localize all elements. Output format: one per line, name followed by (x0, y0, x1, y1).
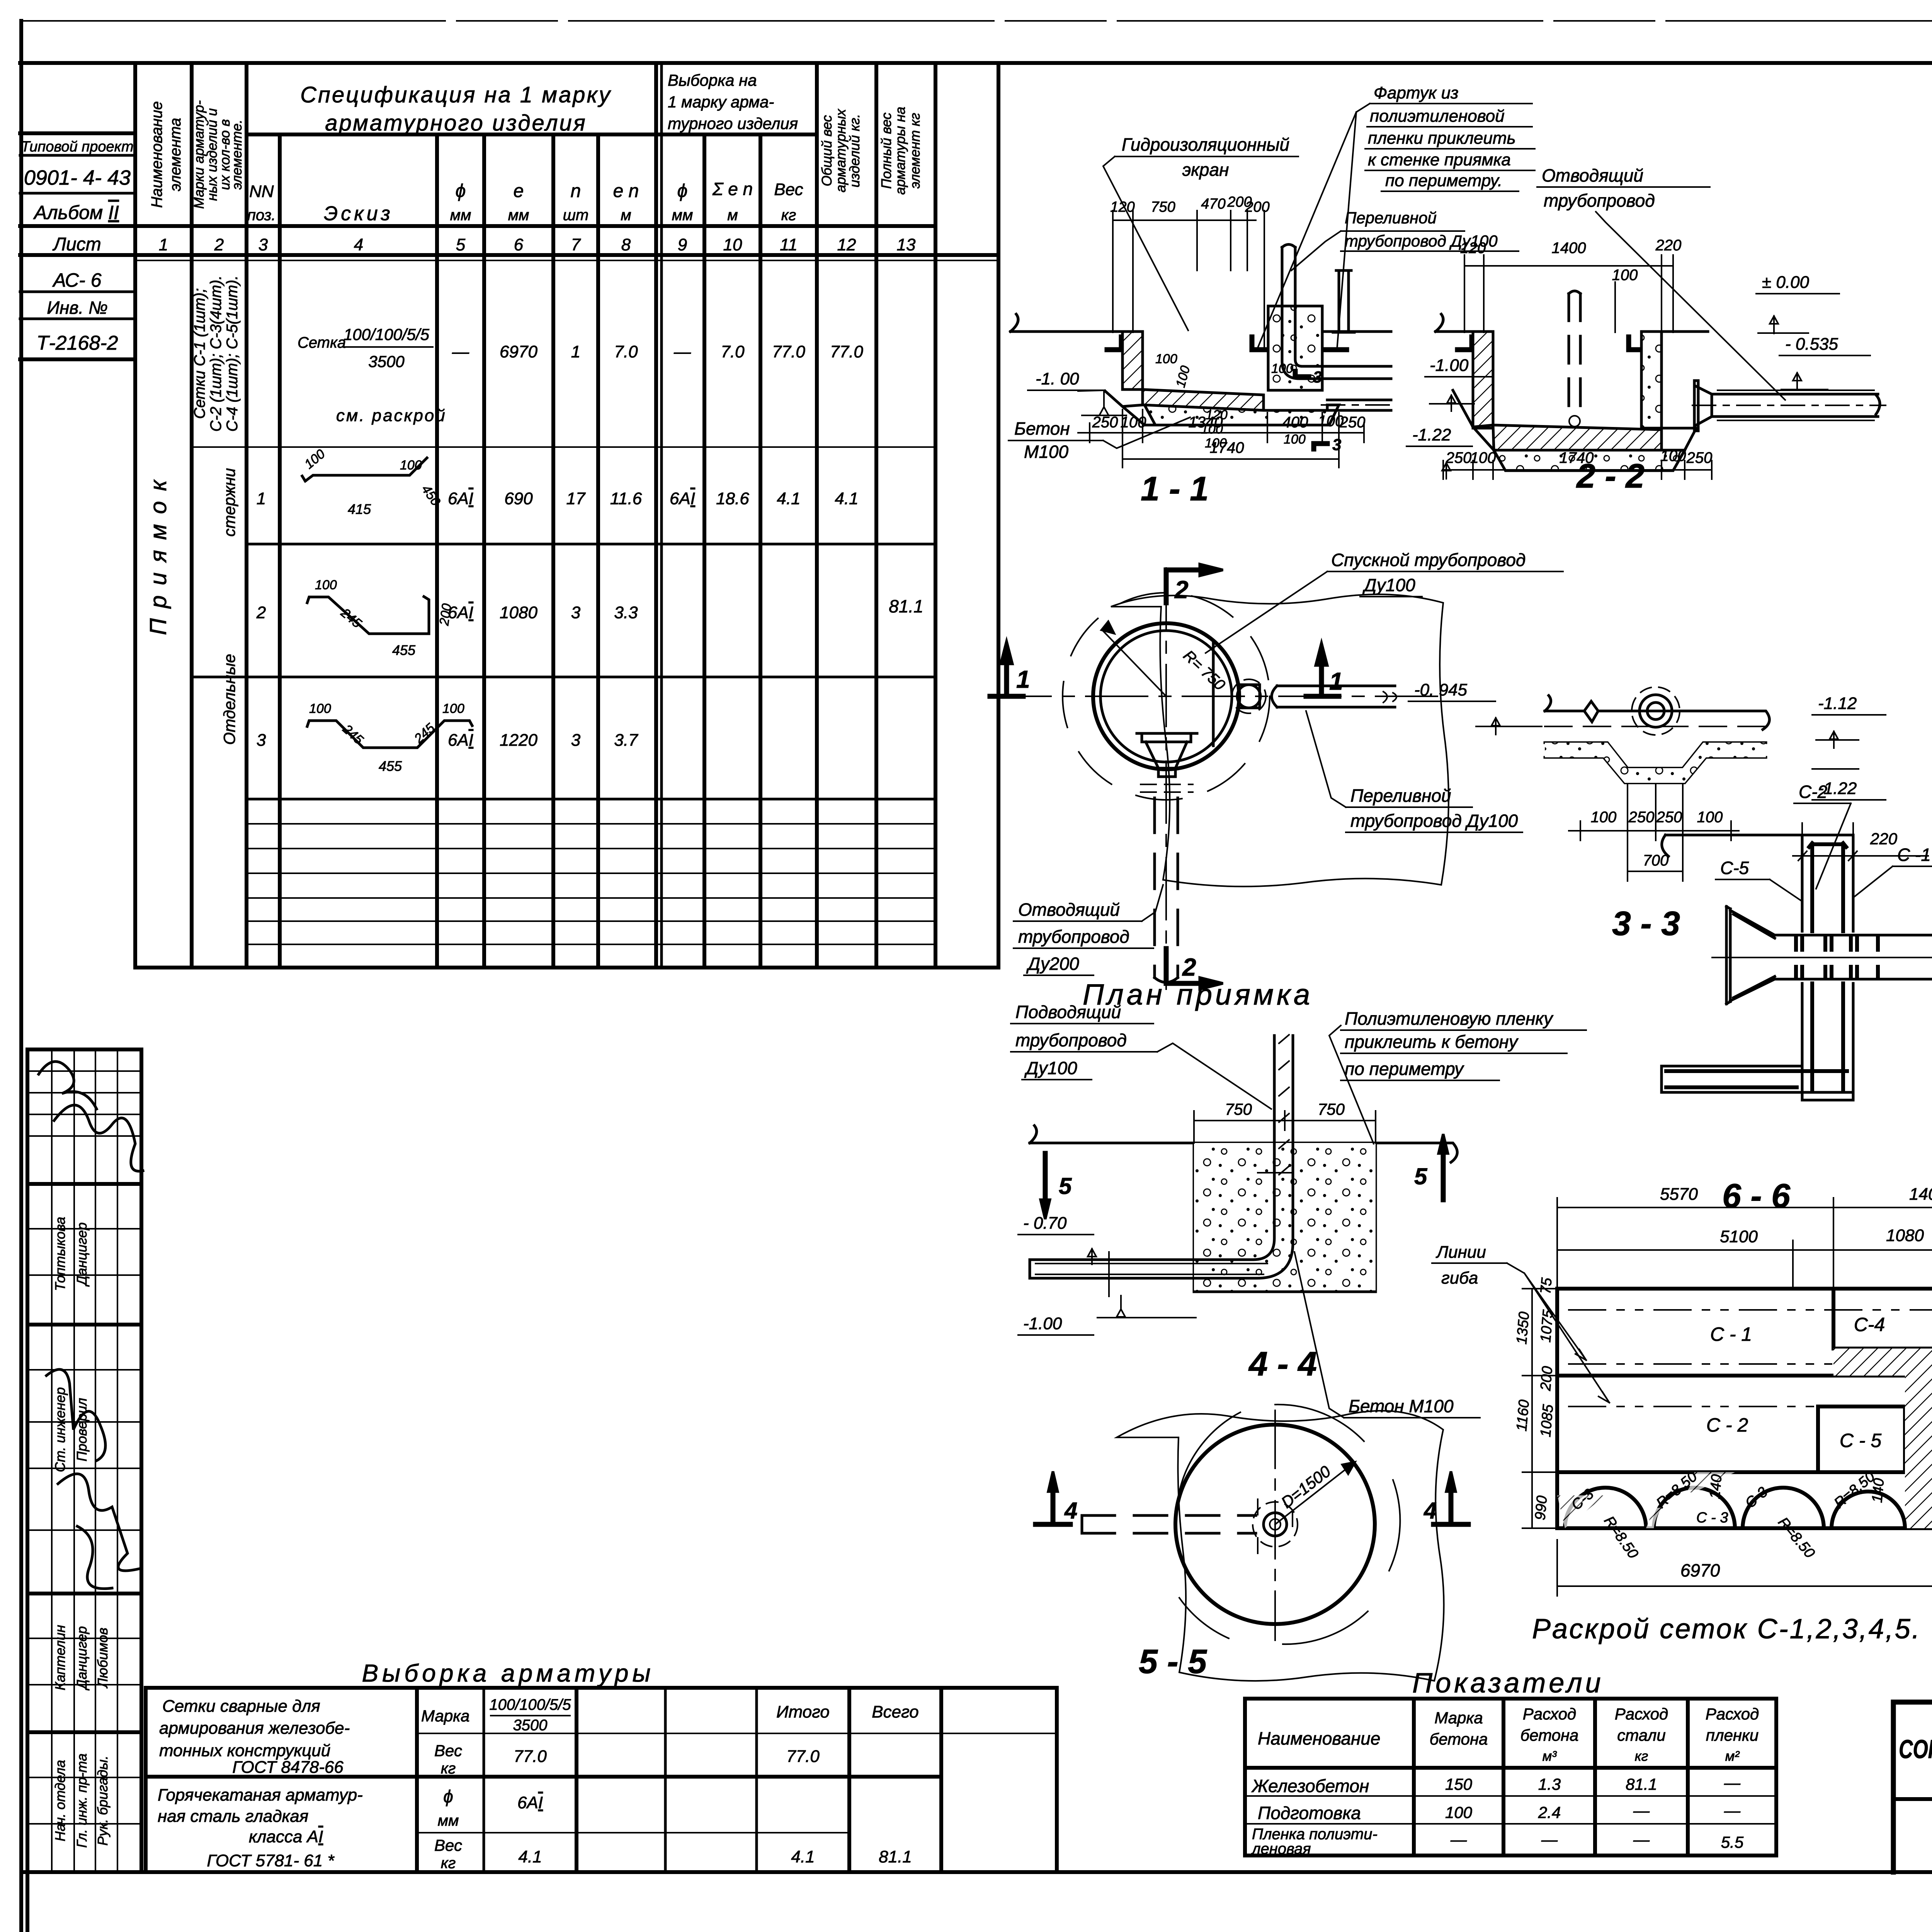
svg-text:трубопровод: трубопровод (1018, 927, 1129, 947)
svg-text:—: — (1724, 1801, 1741, 1820)
section 1-1 U-pipe in wall (1282, 245, 1391, 411)
svg-text:100: 100 (442, 701, 464, 716)
svg-text:11.6: 11.6 (610, 489, 642, 508)
frame bottom thick line (21, 1870, 1932, 1874)
svg-text:Переливной: Переливной (1345, 209, 1437, 227)
raskroy main rect (1557, 1289, 1932, 1528)
svg-text:Проверил: Проверил (74, 1398, 90, 1462)
svg-text:турного изделия: турного изделия (668, 114, 798, 133)
svg-text:арматурного изделия: арматурного изделия (325, 111, 587, 136)
svg-text:стержни: стержни (220, 468, 238, 537)
svg-text:АС- 6: АС- 6 (52, 269, 102, 291)
label polyethylene film (4-4) (1329, 1009, 1586, 1144)
svg-text:см. раскрой: см. раскрой (336, 406, 447, 425)
svg-text:мм: мм (438, 1812, 459, 1829)
svg-text:бетона: бетона (1430, 1730, 1488, 1748)
svg-text:5 - 5: 5 - 5 (1139, 1642, 1207, 1680)
svg-text:10: 10 (723, 235, 742, 254)
section 1-1 concrete walls (1010, 306, 1391, 425)
svg-text:С - 2: С - 2 (1706, 1414, 1748, 1436)
section 2-2 fartuk angles (1458, 337, 1640, 350)
svg-text:1080: 1080 (500, 603, 537, 622)
svg-text:ϕ: ϕ (443, 1786, 453, 1806)
svg-text:250: 250 (1339, 414, 1366, 431)
svg-text:6АI: 6АI (448, 731, 473, 750)
raskroy top dims (1557, 1198, 1932, 1289)
svg-text:120: 120 (1110, 199, 1134, 215)
svg-text:армирования железобе-: армирования железобе- (159, 1719, 350, 1738)
svg-text:Показатели: Показатели (1412, 1668, 1604, 1699)
svg-text:77.0: 77.0 (830, 342, 863, 361)
body row pos2 (256, 578, 638, 658)
section 2-2 dashed overflow pipe (1569, 291, 1580, 427)
svg-text:4 - 4: 4 - 4 (1248, 1345, 1317, 1383)
svg-text:1: 1 (257, 489, 266, 508)
svg-text:Наименование: Наименование (148, 101, 165, 208)
svg-text:120: 120 (1460, 240, 1486, 257)
svg-text:4: 4 (1423, 1498, 1437, 1524)
svg-text:6АI: 6АI (517, 1793, 543, 1812)
svg-text:3: 3 (259, 235, 268, 254)
svg-text:мм: мм (508, 207, 529, 224)
svg-text:Альбом II: Альбом II (33, 202, 119, 223)
svg-text:Вес: Вес (434, 1836, 462, 1854)
svg-text:ная сталь гладкая: ная сталь гладкая (158, 1807, 308, 1826)
svg-text:трубопровод Ду100: трубопровод Ду100 (1350, 811, 1518, 831)
svg-text:М100: М100 (1024, 442, 1068, 462)
svg-text:Марка: Марка (421, 1707, 469, 1725)
svg-text:750: 750 (1225, 1100, 1252, 1118)
svg-text:С-5: С-5 (1720, 858, 1749, 878)
svg-text:Приямок: Приямок (145, 470, 171, 635)
svg-text:—: — (452, 342, 469, 361)
plan section marker 2 top (1166, 564, 1223, 604)
svg-text:1085: 1085 (1537, 1403, 1556, 1438)
svg-text:Полный вес: Полный вес (878, 112, 894, 189)
svg-text:СОЮЗВОДОКАНАЛПРОЕКТ: СОЮЗВОДОКАНАЛПРОЕКТ (1899, 1735, 1932, 1764)
label linii giba (1432, 1243, 1609, 1403)
svg-text:4.1: 4.1 (791, 1847, 815, 1866)
svg-text:трубопровод: трубопровод (1015, 1030, 1127, 1050)
svg-text:2 - 2: 2 - 2 (1576, 457, 1645, 495)
svg-text:Полиэтиленовую пленку: Полиэтиленовую пленку (1345, 1009, 1554, 1029)
svg-text:Ду100: Ду100 (1024, 1058, 1077, 1078)
5-5 center fitting (1253, 1499, 1298, 1553)
svg-text:100: 100 (315, 578, 337, 592)
svg-text:400: 400 (1282, 414, 1308, 431)
svg-text:6АI: 6АI (670, 489, 695, 508)
svg-text:Расход: Расход (1523, 1705, 1577, 1723)
svg-text:7: 7 (571, 235, 581, 254)
svg-text:1400: 1400 (1909, 1185, 1932, 1204)
svg-text:470: 470 (1201, 196, 1225, 212)
section 1-1 bottom dims (1078, 410, 1364, 468)
svg-text:Бетон: Бетон (1014, 418, 1070, 439)
svg-text:e: e (514, 181, 524, 201)
svg-text:9: 9 (678, 235, 687, 254)
svg-text:класса АI: класса АI (249, 1827, 323, 1846)
svg-text:Инв. №: Инв. № (47, 298, 108, 318)
svg-text:Сетка: Сетка (298, 334, 346, 351)
label beton M100 (4-4) (1294, 1252, 1480, 1418)
svg-text:к стенке приямка: к стенке приямка (1368, 150, 1511, 169)
svg-text:Т-2168-2: Т-2168-2 (37, 332, 118, 354)
svg-text:250: 250 (1092, 414, 1118, 431)
svg-text:100: 100 (1697, 809, 1723, 826)
svg-text:арматурных: арматурных (833, 108, 849, 192)
svg-text:Итого: Итого (776, 1702, 830, 1721)
svg-text:Бетон М100: Бетон М100 (1349, 1396, 1454, 1416)
svg-text:м: м (727, 207, 738, 224)
4-4 ground lines and block (1030, 1126, 1457, 1292)
svg-text:Отдельные: Отдельные (220, 654, 238, 745)
svg-text:1220: 1220 (500, 731, 537, 750)
svg-text:1.3: 1.3 (1538, 1775, 1561, 1793)
plan circles (1063, 593, 1270, 800)
5-5 circles (1175, 1405, 1400, 1644)
svg-text:Подводящий: Подводящий (1015, 1002, 1121, 1022)
section 2-2 funnel and outfall pipe (1692, 381, 1886, 431)
svg-text:1740: 1740 (1210, 439, 1244, 456)
svg-text:81.1: 81.1 (879, 1847, 912, 1866)
svg-text:7.0: 7.0 (721, 342, 745, 361)
frame top line (20, 61, 1932, 65)
plan dashed pipe down (1155, 798, 1178, 978)
spec table header texts (148, 71, 923, 225)
page border left (19, 21, 23, 1932)
svg-text:100: 100 (1445, 1803, 1473, 1821)
svg-text:81.1: 81.1 (1626, 1775, 1657, 1793)
svg-text:-1.00: -1.00 (1430, 356, 1469, 375)
svg-text:м²: м² (1725, 1748, 1740, 1764)
label perelivnoy (plan, lower) (1306, 711, 1522, 832)
svg-text:415: 415 (348, 501, 371, 517)
6-6 wall band (1802, 835, 1853, 1100)
svg-text:леновая: леновая (1251, 1840, 1311, 1857)
svg-text:С-4: С-4 (1854, 1314, 1885, 1335)
svg-text:тонных конструкций: тонных конструкций (159, 1741, 330, 1760)
svg-text:81.1: 81.1 (889, 596, 923, 616)
label otvodyashchiy truboprovod (to 2-2 pipe) (1537, 165, 1785, 400)
plan wavy boundary (1111, 594, 1449, 886)
svg-text:—: — (1633, 1830, 1650, 1849)
svg-text:Σ e n: Σ e n (712, 179, 753, 199)
svg-text:бетона: бетона (1520, 1726, 1579, 1744)
svg-text:пленки приклеить: пленки приклеить (1368, 129, 1516, 148)
svg-text:5: 5 (456, 235, 466, 254)
svg-text:1 - 1: 1 - 1 (1141, 469, 1209, 508)
svg-text:м: м (621, 207, 631, 224)
strip rotated labels (52, 1217, 111, 1848)
svg-text:4.1: 4.1 (835, 489, 858, 508)
svg-text:3: 3 (1332, 435, 1341, 454)
svg-text:Расход: Расход (1706, 1705, 1759, 1723)
svg-text:приклеить к бетону: приклеить к бетону (1345, 1032, 1519, 1052)
svg-text:1: 1 (1016, 665, 1030, 693)
svg-text:Ду200: Ду200 (1026, 954, 1079, 974)
raskroy left dims (1514, 1277, 1557, 1528)
svg-text:экран: экран (1182, 160, 1229, 180)
svg-text:С-2 (1шт); С-3(4шт).: С-2 (1шт); С-3(4шт). (207, 276, 224, 432)
svg-text:2: 2 (256, 603, 266, 622)
svg-text:мм: мм (450, 207, 471, 224)
section 1-1 top dimension row (1113, 211, 1264, 350)
5-5 dashed pipe from left (1082, 1515, 1256, 1533)
body row pos3 (257, 701, 638, 774)
svg-text:13: 13 (897, 235, 916, 254)
svg-text:250: 250 (1446, 449, 1472, 466)
svg-text:по периметру.: по периметру. (1385, 171, 1502, 190)
body row: setka (298, 325, 863, 425)
svg-text:-1.00: -1.00 (1023, 1314, 1062, 1333)
svg-text:—: — (1450, 1830, 1467, 1849)
svg-text:1: 1 (571, 342, 580, 361)
section 2-2 level marks (1406, 273, 1870, 479)
svg-text:3500: 3500 (513, 1717, 548, 1734)
svg-text:Железобетон: Железобетон (1251, 1776, 1369, 1796)
svg-text:5570: 5570 (1660, 1185, 1698, 1204)
svg-text:Всего: Всего (872, 1702, 919, 1721)
svg-text:8: 8 (621, 235, 631, 254)
svg-text:77.0: 77.0 (786, 1747, 820, 1766)
section 2-2 bottom dims (1443, 461, 1712, 479)
svg-text:750: 750 (1318, 1100, 1345, 1118)
svg-text:по периметру: по периметру (1345, 1059, 1464, 1079)
svg-text:3: 3 (1313, 368, 1322, 386)
svg-text:—: — (1724, 1774, 1741, 1792)
svg-text:1080: 1080 (1886, 1226, 1924, 1245)
svg-text:- 0.70: - 0.70 (1023, 1214, 1067, 1233)
label perelivnoy truboprovod (upper) (1291, 209, 1519, 270)
body column 1-2 rotated texts (145, 276, 241, 745)
svg-text:м³: м³ (1543, 1748, 1557, 1764)
svg-text:4: 4 (1064, 1498, 1077, 1524)
svg-text:150: 150 (1445, 1775, 1473, 1793)
svg-text:Эскиз: Эскиз (324, 202, 393, 225)
section 1-1 fartuk angles (1107, 337, 1360, 350)
svg-text:Общий вес: Общий вес (819, 115, 835, 187)
5-5 wavy boundary (1117, 1411, 1444, 1681)
svg-text:77.0: 77.0 (772, 342, 805, 361)
svg-text:200: 200 (1245, 199, 1269, 215)
spec table horizontals (20, 133, 998, 968)
svg-text:трубопровод: трубопровод (1544, 190, 1655, 211)
svg-text:1 марку арма-: 1 марку арма- (668, 93, 774, 111)
6-6 bottom corner slab (1662, 1066, 1853, 1092)
6-6 dim 220 (1793, 823, 1928, 866)
svg-text:1: 1 (1329, 667, 1343, 695)
svg-text:220: 220 (1655, 237, 1682, 254)
svg-text:100: 100 (400, 458, 422, 473)
svg-text:n: n (571, 181, 581, 201)
svg-text:гиба: гиба (1441, 1269, 1478, 1287)
svg-text:6970: 6970 (500, 342, 537, 361)
section 1-1 small dims (1155, 352, 1341, 454)
svg-text:Наименование: Наименование (1258, 1728, 1380, 1748)
svg-text:100: 100 (1271, 361, 1293, 376)
svg-text:1340: 1340 (1189, 414, 1223, 431)
svg-text:кг: кг (781, 207, 796, 224)
plan section marker 2 bottom (1166, 949, 1223, 989)
svg-text:С - 5: С - 5 (1840, 1430, 1882, 1451)
svg-text:Раскрой сеток С-1,2,3,4,5.: Раскрой сеток С-1,2,3,4,5. (1532, 1614, 1921, 1645)
plan center lines (989, 568, 1445, 989)
svg-text:3 - 3: 3 - 3 (1612, 904, 1680, 942)
svg-text:шт: шт (563, 207, 589, 224)
6-6 mesh labels (1716, 782, 1932, 900)
svg-text:поз.: поз. (247, 207, 276, 224)
svg-text:С -1: С -1 (1897, 845, 1931, 865)
svg-text:Подготовка: Подготовка (1258, 1803, 1361, 1823)
svg-text:11: 11 (780, 235, 798, 254)
svg-text:100: 100 (1612, 267, 1638, 284)
svg-text:стали: стали (1617, 1726, 1665, 1744)
svg-text:100/100/5/5: 100/100/5/5 (489, 1696, 571, 1713)
svg-text:100: 100 (1121, 414, 1146, 431)
svg-text:-1. 00: -1. 00 (1036, 369, 1079, 388)
6-6 ground top line (1662, 835, 1802, 856)
svg-text:Расход: Расход (1615, 1705, 1668, 1723)
svg-text:С-4 (1шт); С-5(1шт).: С-4 (1шт); С-5(1шт). (224, 276, 241, 432)
svg-text:ϕ: ϕ (677, 181, 688, 201)
svg-text:Данцигер: Данцигер (74, 1626, 90, 1690)
svg-text:1160: 1160 (1514, 1399, 1532, 1432)
svg-text:Выборка арматуры: Выборка арматуры (362, 1659, 654, 1687)
svg-text:Ст. инженер: Ст. инженер (52, 1387, 68, 1472)
svg-text:—: — (1541, 1830, 1558, 1849)
svg-text:—: — (673, 342, 691, 361)
svg-text:18.6: 18.6 (716, 489, 749, 508)
svg-text:0901- 4- 43: 0901- 4- 43 (24, 166, 131, 189)
svg-text:5100: 5100 (1720, 1227, 1758, 1246)
svg-text:6970: 6970 (1680, 1560, 1720, 1580)
svg-text:Вес: Вес (434, 1742, 462, 1760)
vyborka texts (158, 1696, 919, 1872)
svg-text:пленки: пленки (1706, 1726, 1759, 1744)
svg-text:2: 2 (1174, 576, 1189, 604)
numbers row (159, 235, 916, 254)
svg-text:Сетки С-1 (1шт);: Сетки С-1 (1шт); (191, 288, 208, 419)
4-4 section markers 5 (1041, 1134, 1448, 1219)
spec table verticals (135, 63, 998, 968)
svg-text:Спецификация на 1 марку: Спецификация на 1 марку (300, 82, 612, 107)
label beton M100 (1009, 417, 1190, 462)
svg-text:NN: NN (249, 182, 274, 201)
svg-text:100: 100 (1284, 432, 1306, 447)
svg-text:Лист: Лист (52, 234, 101, 255)
svg-text:Отводящий: Отводящий (1542, 165, 1643, 185)
5-5 center lines (1274, 1410, 1276, 1640)
svg-text:3.7: 3.7 (614, 731, 638, 750)
svg-text:—: — (1633, 1801, 1650, 1820)
section 2-2 walls (1435, 314, 1708, 471)
svg-text:3: 3 (257, 731, 266, 750)
svg-text:полиэтиленовой: полиэтиленовой (1370, 107, 1505, 126)
svg-text:Данцигер: Данцигер (74, 1222, 90, 1287)
svg-text:5: 5 (1414, 1163, 1428, 1189)
svg-text:изделий кг.: изделий кг. (847, 114, 862, 187)
svg-text:6АI: 6АI (448, 489, 473, 508)
svg-text:мм: мм (672, 207, 693, 224)
3-3 level marks (1408, 680, 1886, 800)
svg-text:ГОСТ 5781- 61 *: ГОСТ 5781- 61 * (207, 1851, 335, 1870)
svg-text:± 0.00: ± 0.00 (1762, 273, 1810, 292)
svg-text:С - 1: С - 1 (1710, 1323, 1752, 1345)
paper edge top dashed (20, 20, 1932, 22)
svg-text:арматуры на: арматуры на (892, 107, 908, 195)
label otvodyashchiy (plan) (1014, 885, 1163, 975)
3-3 bottom dims (1569, 784, 1739, 881)
svg-text:990: 990 (1532, 1495, 1550, 1521)
svg-text:2: 2 (214, 235, 224, 254)
plan section marker 1 left (990, 641, 1030, 696)
svg-text:Гл. инж. пр-та: Гл. инж. пр-та (74, 1753, 90, 1848)
svg-text:6АI: 6АI (448, 603, 473, 622)
svg-text:Отводящий: Отводящий (1018, 900, 1120, 920)
svg-text:4: 4 (354, 235, 363, 254)
svg-text:Типовой проект: Типовой проект (21, 139, 133, 155)
plan radius R=750 (1102, 622, 1228, 696)
svg-text:690: 690 (504, 489, 533, 508)
svg-text:3: 3 (571, 603, 581, 622)
svg-text:6: 6 (514, 235, 524, 254)
svg-text:455: 455 (392, 642, 416, 658)
svg-text:Вес: Вес (774, 180, 803, 199)
svg-text:4.1: 4.1 (518, 1847, 542, 1866)
svg-text:Любимов: Любимов (95, 1628, 111, 1689)
svg-text:140: 140 (1869, 1478, 1887, 1503)
svg-text:Гидроизоляционный: Гидроизоляционный (1122, 134, 1289, 155)
svg-text:200: 200 (1537, 1366, 1556, 1392)
svg-text:ϕ: ϕ (456, 181, 466, 201)
svg-text:1350: 1350 (1514, 1311, 1532, 1345)
svg-text:3500: 3500 (368, 352, 405, 371)
svg-text:-0. 945: -0. 945 (1414, 680, 1468, 699)
svg-text:2: 2 (1182, 953, 1196, 981)
svg-text:455: 455 (379, 758, 402, 774)
svg-text:элемента: элемента (167, 118, 184, 191)
svg-text:Спускной трубопровод: Спускной трубопровод (1331, 550, 1526, 570)
svg-text:- 0.535: - 0.535 (1785, 335, 1838, 354)
svg-text:250: 250 (1628, 809, 1655, 826)
svg-text:2.4: 2.4 (1538, 1803, 1561, 1821)
svg-text:кг: кг (441, 1760, 456, 1777)
signature squiggles (39, 1061, 143, 1588)
label spusknoy truboprovod (1206, 550, 1563, 653)
plan funnel bottom (1137, 733, 1197, 792)
svg-text:Линии: Линии (1435, 1243, 1486, 1262)
5-5 section markers 4 (1036, 1471, 1468, 1524)
section 1-1 level mark -1.00 (1028, 369, 1126, 415)
svg-text:кг: кг (1635, 1748, 1648, 1764)
4-4 top dims (1194, 1111, 1376, 1143)
body row pos1 (257, 446, 923, 616)
6-6 grate bars dashed in pipe (1796, 938, 1878, 978)
svg-text:100: 100 (1591, 809, 1617, 826)
svg-text:-1.12: -1.12 (1818, 694, 1857, 713)
5-5 radius D=1500 (1275, 1462, 1354, 1524)
svg-text:140: 140 (1707, 1474, 1725, 1500)
svg-text:С - 3: С - 3 (1696, 1510, 1728, 1526)
svg-text:Рук. бригады.: Рук. бригады. (95, 1755, 111, 1845)
svg-text:250: 250 (1686, 449, 1713, 466)
svg-text:3: 3 (571, 731, 581, 750)
label fartuk top-center (5 lines) (1258, 83, 1535, 350)
raskroy bottom semicircles (1565, 1488, 1905, 1528)
svg-text:Марка: Марка (1434, 1709, 1483, 1727)
svg-text:220: 220 (1870, 830, 1898, 848)
6-6 pipe through wall (1712, 935, 1932, 979)
